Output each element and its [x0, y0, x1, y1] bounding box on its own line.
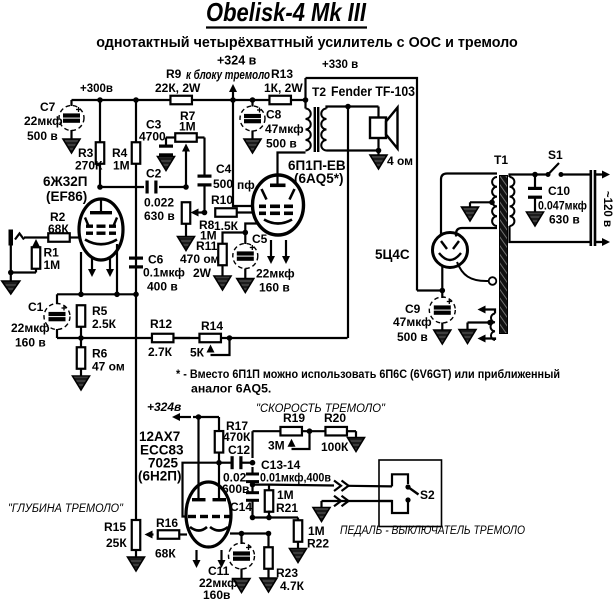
- svg-text:R16: R16: [156, 516, 178, 530]
- svg-text:R23: R23: [276, 566, 298, 580]
- svg-text:C9: C9: [405, 302, 421, 316]
- svg-text:C8: C8: [266, 108, 282, 122]
- svg-text:160 в: 160 в: [15, 336, 46, 350]
- svg-text:(6Н2П): (6Н2П): [138, 469, 181, 484]
- svg-text:+324 в: +324 в: [217, 54, 257, 68]
- svg-text:270К: 270К: [75, 159, 103, 173]
- svg-text:"СКОРОСТЬ ТРЕМОЛО": "СКОРОСТЬ ТРЕМОЛО": [256, 401, 386, 415]
- svg-text:R14: R14: [201, 319, 223, 333]
- svg-text:68К: 68К: [48, 222, 69, 236]
- svg-text:4.7К: 4.7К: [280, 579, 305, 593]
- svg-text:к блоку тремоло: к блоку тремоло: [186, 68, 270, 82]
- svg-text:500 в: 500 в: [27, 129, 58, 143]
- svg-text:2.7К: 2.7К: [148, 345, 173, 359]
- svg-text:C12: C12: [228, 443, 250, 457]
- svg-text:160 в: 160 в: [259, 281, 290, 295]
- svg-text:C4: C4: [216, 162, 232, 176]
- svg-text:R5: R5: [92, 304, 108, 318]
- svg-text:~120 в: ~120 в: [601, 191, 613, 227]
- svg-text:1М: 1М: [277, 488, 294, 502]
- svg-text:пф: пф: [237, 178, 255, 192]
- svg-text:0.047мкф: 0.047мкф: [538, 199, 587, 213]
- svg-text:47 ом: 47 ом: [92, 360, 125, 374]
- svg-text:5К: 5К: [190, 346, 205, 360]
- svg-text:ПЕДАЛЬ - ВЫКЛЮЧАТЕЛЬ ТРЕМОЛО: ПЕДАЛЬ - ВЫКЛЮЧАТЕЛЬ ТРЕМОЛО: [340, 523, 525, 537]
- svg-text:0.022: 0.022: [144, 196, 174, 210]
- svg-text:470К: 470К: [223, 430, 251, 444]
- svg-text:Fender TF-103: Fender TF-103: [331, 84, 415, 99]
- svg-text:1М: 1М: [113, 159, 130, 173]
- svg-text:1К, 2W: 1К, 2W: [264, 81, 303, 95]
- svg-text:47мкф: 47мкф: [393, 315, 432, 329]
- svg-text:4 ом: 4 ом: [387, 154, 413, 168]
- svg-text:R21: R21: [276, 501, 298, 515]
- svg-text:T2: T2: [312, 85, 326, 99]
- svg-text:0.1мкф: 0.1мкф: [143, 266, 185, 280]
- svg-text:+324в: +324в: [147, 400, 181, 414]
- svg-text:1М: 1М: [44, 258, 61, 272]
- svg-text:* - Вместо 6П1П можно использо: * - Вместо 6П1П можно использовать 6П6С …: [176, 367, 560, 381]
- svg-text:400 в: 400 в: [147, 280, 178, 294]
- svg-text:C6: C6: [148, 253, 164, 267]
- svg-text:R9: R9: [166, 67, 182, 81]
- svg-text:"ГЛУБИНА ТРЕМОЛО": "ГЛУБИНА ТРЕМОЛО": [8, 501, 124, 515]
- svg-text:500 в: 500 в: [266, 137, 297, 151]
- svg-text:R22: R22: [307, 537, 329, 551]
- svg-text:R6: R6: [92, 347, 108, 361]
- svg-text:630 в: 630 в: [549, 213, 580, 227]
- svg-text:+300в: +300в: [80, 83, 113, 95]
- svg-text:C5: C5: [252, 232, 268, 246]
- svg-text:22мкф: 22мкф: [256, 267, 295, 281]
- svg-text:470 ом: 470 ом: [180, 252, 220, 266]
- svg-text:0.01мкф,400в: 0.01мкф,400в: [260, 471, 331, 485]
- svg-text:C14: C14: [230, 500, 252, 514]
- svg-text:68К: 68К: [155, 547, 176, 561]
- svg-text:C10: C10: [548, 184, 570, 198]
- svg-text:R10: R10: [211, 193, 233, 207]
- svg-text:R11: R11: [196, 239, 218, 253]
- svg-text:(6AQ5*): (6AQ5*): [294, 171, 344, 186]
- svg-text:+330 в: +330 в: [322, 59, 358, 71]
- svg-text:R19: R19: [283, 411, 305, 425]
- svg-text:T1: T1: [494, 153, 508, 167]
- svg-text:S1: S1: [548, 148, 563, 162]
- svg-text:500: 500: [213, 177, 233, 191]
- svg-text:4700: 4700: [139, 130, 166, 144]
- svg-text:(EF86): (EF86): [46, 189, 87, 204]
- svg-text:500 в: 500 в: [397, 330, 428, 344]
- svg-text:3М: 3М: [268, 439, 285, 453]
- svg-text:C7: C7: [40, 100, 56, 114]
- svg-text:Obelisk-4 Mk III: Obelisk-4 Mk III: [206, 0, 367, 27]
- svg-text:630 в: 630 в: [144, 209, 175, 223]
- svg-text:22К, 2W: 22К, 2W: [155, 81, 201, 95]
- svg-text:100К: 100К: [321, 440, 349, 454]
- svg-text:C2: C2: [146, 167, 162, 181]
- svg-text:6Ж32П: 6Ж32П: [43, 174, 87, 189]
- svg-text:1М: 1М: [179, 120, 196, 134]
- svg-text:R13: R13: [271, 67, 293, 81]
- svg-text:22мкф: 22мкф: [11, 321, 50, 335]
- svg-text:R12: R12: [150, 317, 172, 331]
- svg-text:S2: S2: [420, 488, 435, 502]
- svg-text:2.5К: 2.5К: [92, 317, 117, 331]
- svg-text:R20: R20: [324, 411, 346, 425]
- svg-text:R15: R15: [104, 520, 126, 534]
- svg-text:25К: 25К: [106, 536, 127, 550]
- svg-text:1.5К: 1.5К: [214, 219, 239, 233]
- svg-text:2W: 2W: [193, 266, 212, 280]
- svg-text:5Ц4С: 5Ц4С: [375, 247, 410, 262]
- svg-text:22мкф: 22мкф: [24, 114, 63, 128]
- svg-text:160в: 160в: [203, 588, 230, 600]
- svg-text:C1: C1: [28, 300, 44, 314]
- svg-text:однотактный четырёхваттный уси: однотактный четырёхваттный усилитель с О…: [96, 35, 518, 51]
- svg-text:47мкф: 47мкф: [265, 122, 304, 136]
- svg-text:аналог 6AQ5.: аналог 6AQ5.: [191, 382, 271, 396]
